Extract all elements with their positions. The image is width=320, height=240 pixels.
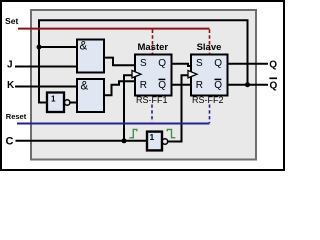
wire: NOT1 bubble to AND2 lower input [70, 102, 77, 104]
wire: AND2 output to FF1 R input [104, 81, 135, 95]
Reset dashed rise to FF2 [209, 105, 211, 124]
svg-text:Q: Q [158, 80, 166, 91]
wire: K input [15, 86, 77, 88]
wire: NOT2 output to FF2 dynamic clock input [168, 75, 191, 141]
wire: FF1 Q to FF2 S [172, 64, 192, 66]
FF1 clock chevron [132, 71, 141, 78]
wire: FF2 Q output [228, 63, 269, 65]
node C (junction /Q to feedback) [245, 82, 250, 87]
NOT gate 1 (feedback inverter) [47, 93, 64, 113]
svg-text:Q: Q [214, 58, 222, 69]
Reset line (blue) [17, 123, 210, 125]
NOT gate 2 (clock inverter) [147, 132, 162, 151]
NOT gate 1 bubble [65, 100, 70, 105]
svg-text:RS-FF2: RS-FF2 [192, 95, 224, 105]
Set dashed drop to Slave [209, 29, 211, 54]
svg-text:J: J [7, 60, 13, 71]
Reset dashed rise to FF1 [151, 105, 153, 123]
svg-text:R: R [196, 80, 203, 91]
wire: feedback to AND1 top input [39, 46, 77, 48]
FF2 clock chevron [188, 71, 197, 78]
svg-text:R: R [140, 80, 147, 91]
svg-text:K: K [7, 80, 15, 91]
wire: feedback loop from /Q around top to left side, into left NOT gate [39, 20, 248, 102]
svg-text:Reset: Reset [6, 112, 27, 121]
wire: FF2 /Q output [228, 84, 269, 86]
svg-text:&: & [80, 40, 88, 52]
RS-FF2 (Slave) box [191, 55, 228, 96]
RS-FF1 (Master) box [135, 55, 172, 96]
svg-text:Master: Master [137, 42, 168, 53]
svg-text:Q: Q [270, 80, 278, 91]
svg-text:Set: Set [5, 16, 19, 26]
falling edge symbol (after NOT2) [167, 129, 175, 137]
svg-text:1: 1 [51, 94, 56, 103]
outer frame [1, 1, 284, 170]
svg-text:S: S [196, 58, 203, 69]
NOT gate 2 bubble [162, 139, 167, 144]
Set dashed drop to Master [152, 29, 154, 54]
svg-text:Slave: Slave [197, 42, 222, 53]
wire: AND1 output to FF1 S input [104, 58, 135, 66]
svg-text:C: C [6, 135, 14, 147]
panel (circuit body) [31, 10, 256, 160]
AND gate 1 (J side) [77, 40, 104, 73]
svg-text:&: & [81, 81, 89, 93]
svg-text:1: 1 [150, 132, 155, 142]
svg-text:S: S [140, 58, 147, 69]
rising edge symbol (before NOT2) [129, 129, 137, 137]
AND gate 2 (K side) [77, 79, 104, 112]
node B (junction clock to master) [122, 138, 127, 143]
wire: clock up to master FF1 dynamic input [124, 75, 135, 141]
wire: J input [15, 66, 77, 68]
wire: C clock input [16, 140, 148, 142]
node A (junction on feedback line to AND1) [37, 45, 42, 50]
Set line (red) [18, 28, 210, 30]
wire: FF1 /Q to FF2 R [172, 84, 192, 86]
svg-text:Q: Q [269, 59, 277, 70]
svg-text:Q: Q [214, 80, 222, 91]
svg-text:Q: Q [158, 58, 166, 69]
svg-text:RS-FF1: RS-FF1 [136, 95, 168, 105]
